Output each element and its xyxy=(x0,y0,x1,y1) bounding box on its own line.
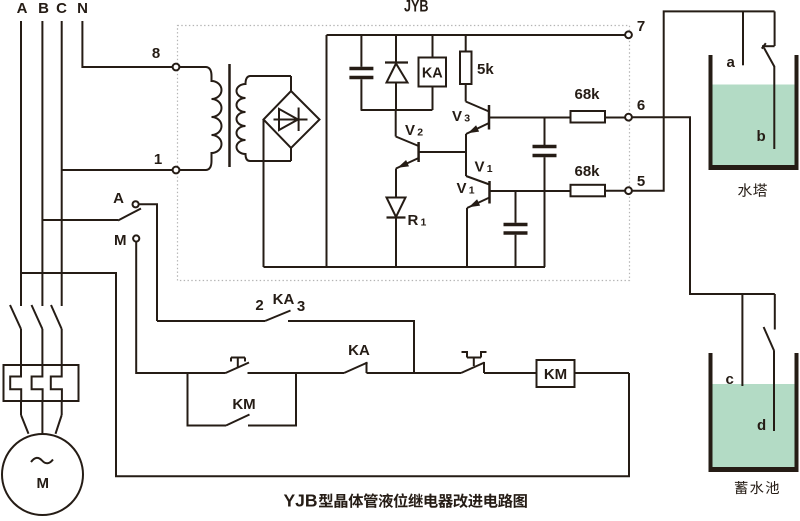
svg-text:V: V xyxy=(457,180,467,197)
svg-text:d: d xyxy=(757,417,766,434)
svg-text:6: 6 xyxy=(637,97,645,114)
svg-text:5k: 5k xyxy=(477,61,494,78)
svg-text:M: M xyxy=(114,232,127,249)
svg-text:1: 1 xyxy=(487,163,493,175)
svg-text:a: a xyxy=(727,54,736,71)
svg-text:B: B xyxy=(38,0,49,17)
svg-text:3: 3 xyxy=(297,298,305,315)
svg-text:C: C xyxy=(56,0,67,17)
svg-text:A: A xyxy=(17,0,28,17)
svg-text:N: N xyxy=(77,0,88,17)
svg-text:KM: KM xyxy=(232,396,255,413)
svg-text:1: 1 xyxy=(421,216,427,228)
svg-text:68k: 68k xyxy=(574,163,600,180)
svg-text:R: R xyxy=(408,212,419,229)
svg-text:3: 3 xyxy=(464,112,470,124)
svg-text:V: V xyxy=(405,122,415,139)
svg-text:1: 1 xyxy=(154,151,162,168)
svg-text:KM: KM xyxy=(544,366,567,383)
svg-text:V: V xyxy=(475,159,485,176)
svg-text:1: 1 xyxy=(469,184,475,196)
svg-text:8: 8 xyxy=(152,45,160,62)
svg-text:JYB: JYB xyxy=(404,0,429,16)
svg-text:V: V xyxy=(452,108,462,125)
svg-text:KA: KA xyxy=(273,291,295,308)
svg-text:7: 7 xyxy=(637,18,645,35)
svg-text:5: 5 xyxy=(637,173,645,190)
svg-text:2: 2 xyxy=(417,126,423,138)
svg-text:A: A xyxy=(113,190,124,207)
svg-text:2: 2 xyxy=(255,297,263,314)
svg-text:M: M xyxy=(37,475,50,492)
svg-text:b: b xyxy=(757,128,766,145)
svg-text:KA: KA xyxy=(348,342,370,359)
svg-text:68k: 68k xyxy=(574,86,600,103)
svg-text:KA: KA xyxy=(422,66,443,82)
svg-text:c: c xyxy=(726,371,734,388)
svg-text:YJB: YJB xyxy=(284,491,318,511)
